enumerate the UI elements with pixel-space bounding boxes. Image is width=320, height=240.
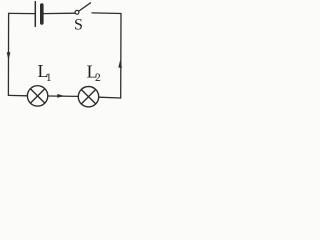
wire right vertical — [120, 14, 122, 99]
lamp L1 — [27, 86, 47, 106]
wire between lamps — [48, 95, 78, 97]
wire top left — [9, 12, 35, 14]
battery short thick plate — [40, 5, 44, 23]
svg-text:L2: L2 — [87, 62, 101, 85]
wire battery to switch — [44, 12, 75, 14]
wire bottom left — [8, 94, 27, 96]
battery long plate — [34, 2, 36, 27]
switch S pivot — [75, 10, 79, 14]
wire bottom right — [99, 96, 121, 99]
current arrow down on left wire — [7, 52, 11, 60]
lamp L2 — [78, 87, 98, 107]
current arrow up on right wire — [118, 60, 122, 67]
wire switch to top right corner — [92, 12, 121, 15]
switch S blade — [79, 3, 91, 11]
svg-text:L1: L1 — [38, 61, 52, 84]
current arrow right on bottom wire — [57, 94, 64, 98]
svg-text:S: S — [74, 16, 83, 33]
wire left vertical — [7, 13, 9, 95]
